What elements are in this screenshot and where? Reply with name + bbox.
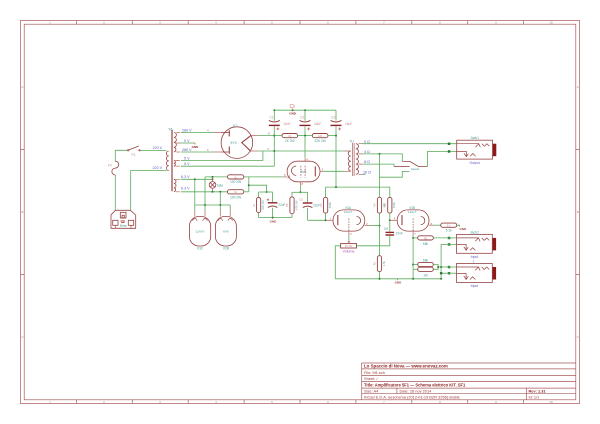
wire B+ node to OT primary	[274, 150, 344, 152]
wire volume right leg to C6	[357, 236, 390, 246]
V3A plate bar	[337, 215, 339, 225]
wire grid node riser down	[412, 238, 414, 279]
V3A grid pin bottom	[348, 231, 350, 235]
junction top rail C1	[273, 109, 275, 111]
connector Jack2 input 1	[457, 234, 493, 253]
wire 8 ohm tap run	[362, 164, 394, 166]
V3A plate pin	[326, 219, 333, 221]
svg-text:C2: C2	[300, 116, 304, 120]
svg-text:GND: GND	[459, 227, 467, 231]
junction lamp bottom	[212, 191, 214, 193]
svg-text:8 Ω: 8 Ω	[364, 160, 370, 164]
svg-text:22K 2W: 22K 2W	[314, 139, 325, 143]
wire 68k to Jack2 tip	[433, 237, 456, 239]
svg-text:Spia: Spia	[217, 183, 224, 187]
svg-text:470 1W: 470 1W	[261, 200, 265, 210]
TU secondary taps	[359, 144, 362, 175]
wire hum branch right	[249, 185, 267, 192]
svg-text:GND: GND	[395, 281, 403, 285]
svg-text:0 V: 0 V	[184, 139, 190, 143]
svg-text:220 V: 220 V	[153, 166, 163, 170]
junction rail end	[440, 278, 442, 280]
Jack3 pin squares	[448, 266, 451, 269]
svg-text:16uF: 16uF	[345, 122, 352, 126]
svg-text:R7: R7	[252, 203, 256, 207]
svg-text:Date: 28 nov 2014: Date: 28 nov 2014	[400, 389, 433, 394]
junction 6.3V a	[194, 178, 196, 180]
svg-text:470 2W: 470 2W	[294, 200, 298, 210]
wire fuse to switch	[115, 150, 127, 161]
svg-text:12AX7: 12AX7	[195, 230, 205, 234]
resistor 470 1W hum	[252, 192, 265, 218]
wire cathode network ground run	[259, 217, 292, 219]
svg-text:V1: V1	[233, 124, 237, 128]
svg-text:12ax7: 12ax7	[408, 210, 417, 214]
svg-text:FV: FV	[108, 164, 113, 168]
svg-text:GND: GND	[192, 145, 200, 149]
svg-text:8: 8	[302, 182, 304, 186]
wire row2 to hum node	[244, 191, 249, 193]
wire V2 cathode down	[299, 185, 301, 192]
wire cathode node branches	[292, 191, 308, 193]
junction C3 node	[335, 135, 337, 137]
svg-text:10: 10	[549, 400, 553, 404]
wire C1 node to R 1K	[274, 135, 282, 137]
resistor 68k input 1	[418, 236, 434, 240]
svg-text:280 V: 280 V	[182, 148, 192, 152]
lamp Spia	[209, 178, 216, 192]
junction V2 cathode	[299, 191, 301, 193]
junction lamp top	[212, 176, 214, 178]
V1 pin 2 stub	[250, 150, 258, 152]
junction ground stub	[272, 217, 274, 219]
V2 plate pin right	[320, 170, 324, 172]
wire 0V to ground	[180, 142, 195, 144]
wire heater row1 with V2 grid feed	[205, 176, 283, 178]
tube V3A 12ax7 envelope	[333, 210, 365, 231]
capacitor C1	[269, 110, 291, 166]
svg-text:6: 6	[207, 148, 209, 152]
junction V3B grid node	[412, 237, 414, 239]
junction merge node	[437, 266, 439, 268]
junction jack2 shunt joins tip2	[440, 266, 442, 268]
V2 cathode pin bottom	[299, 182, 301, 185]
svg-text:5.1: 5.1	[447, 224, 451, 228]
junction heater row d	[204, 204, 206, 206]
potentiometer Volume 1M	[341, 241, 357, 254]
tube V3C 12AX7 heater envelope	[189, 217, 210, 247]
wire V3B cathode to 5.1k	[434, 224, 441, 226]
svg-text:R5: R5	[373, 261, 377, 265]
svg-text:1M: 1M	[423, 273, 428, 277]
svg-text:Size: A4: Size: A4	[364, 389, 379, 394]
TU primary winding	[348, 151, 351, 171]
svg-text:8: 8	[268, 132, 270, 136]
svg-text:100k: 100k	[392, 202, 396, 209]
wire 5V bottom run	[181, 165, 274, 167]
junction hum network	[266, 191, 268, 193]
wire 5.1k to ground	[457, 225, 460, 226]
svg-text:Input: Input	[471, 284, 479, 288]
fuse F1	[112, 161, 119, 175]
svg-text:C1: C1	[269, 116, 273, 120]
V3B plate pin	[390, 219, 397, 221]
resistor 1K 2W	[282, 134, 298, 138]
svg-text:GND: GND	[270, 219, 278, 223]
junction heater row c	[219, 204, 221, 206]
V2 plate bar	[314, 166, 316, 176]
wire V3A grid to volume wiper	[348, 235, 350, 241]
wire preamp ground rail	[335, 278, 441, 280]
resistor 100 2W top	[228, 175, 244, 179]
svg-text:Rete: Rete	[120, 224, 127, 228]
capacitor C2	[300, 110, 322, 135]
wire coupling to V3A grid	[308, 219, 326, 221]
svg-text:7: 7	[414, 232, 416, 236]
V3B cathode arc	[421, 217, 425, 225]
wire 0 ohm to Jack1 tip	[362, 143, 457, 145]
Jack1 pin squares	[448, 143, 451, 146]
wire R22K to C3 node	[328, 135, 336, 137]
title block box	[362, 363, 576, 400]
wire ground top rail	[274, 109, 336, 111]
svg-text:V2B: V2B	[223, 247, 229, 251]
tube V1 5Y3 envelope	[221, 127, 253, 159]
power flag GND on ground rail	[292, 109, 294, 111]
svg-text:Output: Output	[470, 161, 480, 165]
wire heater feed a	[194, 179, 196, 205]
tube V2 6V6 envelope	[287, 161, 320, 182]
capacitor 22uF hum	[267, 192, 286, 218]
V2 grid pin left	[283, 176, 287, 178]
svg-text:68k: 68k	[423, 242, 429, 246]
TA 5V secondary winding	[174, 160, 175, 166]
tube V2B 6V6 heater envelope	[215, 217, 236, 247]
TA HT secondary winding	[174, 133, 176, 152]
junction top rail C2	[304, 109, 306, 111]
TU core	[353, 143, 355, 176]
svg-text:22K: 22K	[318, 134, 323, 138]
resistor 1M grid leak	[418, 267, 434, 271]
svg-text:Jack2: Jack2	[470, 230, 479, 234]
svg-text:A: A	[577, 85, 579, 89]
V1 filament chevron	[242, 135, 251, 150]
wire R1K to R22K	[298, 135, 313, 137]
junction C1 pin8 row	[273, 135, 275, 137]
wire heater feed c	[219, 192, 221, 205]
tube V3B 12ax7 envelope	[397, 210, 429, 231]
svg-text:C6: C6	[384, 227, 388, 231]
wire heater bottom row	[195, 204, 230, 206]
wire preamp B+ rail	[326, 186, 390, 188]
svg-text:22nF: 22nF	[396, 232, 403, 236]
svg-text:Input: Input	[471, 255, 479, 259]
V3B grid dashed	[412, 219, 414, 231]
transformer TA	[166, 130, 180, 192]
wire V3B grid down	[412, 235, 414, 238]
svg-text:4 Ω: 4 Ω	[364, 150, 370, 154]
wire to 68k bottom	[413, 264, 418, 266]
svg-text:Speak: Speak	[411, 167, 420, 171]
plug PE earth mark	[121, 221, 126, 222]
wire 4 ohm tap run	[362, 154, 402, 162]
svg-text:Sheet: /: Sheet: /	[364, 376, 378, 381]
wire switch to transformer primary top	[140, 150, 166, 152]
V2 cathode arc	[292, 166, 297, 175]
wire 1M left leg	[413, 268, 418, 270]
junction 68k2 left	[412, 264, 414, 266]
V3C filament arcs	[193, 219, 208, 221]
V2B filament arcs	[218, 219, 232, 221]
svg-text:B: B	[21, 210, 23, 214]
wire Jack3 shunt to riser	[441, 272, 456, 274]
svg-text:1.5k: 1.5k	[382, 260, 386, 266]
wire grid node to 68k top	[413, 237, 418, 239]
svg-text:6.3 V: 6.3 V	[181, 175, 190, 179]
svg-text:0 Ω: 0 Ω	[364, 140, 370, 144]
svg-text:GND: GND	[289, 111, 297, 115]
svg-text:1: 1	[330, 217, 332, 221]
svg-text:A: A	[21, 85, 23, 89]
svg-text:280 V: 280 V	[182, 128, 192, 132]
resistor 22k NFB	[373, 154, 386, 226]
resistor 5.1k	[441, 223, 457, 227]
junction NFB node	[379, 225, 381, 227]
svg-text:12ax7: 12ax7	[344, 210, 353, 214]
svg-text:Title: Amplificatore 5F1 — Sch: Title: Amplificatore 5F1 — Schema elettr…	[364, 383, 466, 388]
svg-text:R4: R4	[373, 203, 377, 207]
junction 4 ohm NFB	[379, 153, 381, 155]
svg-text:5 V: 5 V	[184, 156, 190, 160]
wire 280V bottom to V1 pin 6	[181, 151, 214, 153]
svg-text:V3C: V3C	[197, 247, 204, 251]
wire 16 ohm stub	[362, 173, 366, 175]
svg-text:2: 2	[268, 147, 270, 151]
svg-text:100k: 100k	[328, 202, 332, 209]
svg-text:File: 5f1.sch: File: 5f1.sch	[364, 370, 385, 375]
svg-text:22uF: 22uF	[278, 203, 285, 207]
connector J1 mains plug Rete	[111, 210, 136, 228]
junction jack3 shunt on riser	[440, 272, 442, 274]
connector Jack3 input 2	[457, 264, 493, 283]
V3A cathode pin right	[365, 225, 370, 227]
svg-text:1K 2W: 1K 2W	[285, 139, 295, 143]
svg-text:16uF: 16uF	[283, 122, 290, 126]
svg-text:R8: R8	[285, 203, 289, 207]
junction C2 node	[304, 135, 306, 137]
svg-text:Jack1: Jack1	[470, 136, 479, 140]
ground symbol below V2 cathode network	[272, 218, 274, 219]
svg-text:100 2W: 100 2W	[230, 180, 241, 184]
junction B+ node pin2	[273, 150, 275, 152]
svg-text:B: B	[577, 210, 579, 214]
svg-text:TU: TU	[349, 140, 354, 144]
transformer TU	[345, 143, 363, 176]
capacitor C3	[331, 110, 353, 187]
svg-text:6.3 V: 6.3 V	[181, 187, 190, 191]
wire neutral from plug to transformer primary bottom	[131, 171, 167, 211]
svg-text:KiCad E.D.A. eeschema (2012-0: KiCad E.D.A. eeschema (2012-01-19 BZR 32…	[364, 394, 460, 399]
svg-text:Rev: 1.31: Rev: 1.31	[529, 389, 547, 394]
wire 280V top to V1 pin 4	[181, 132, 214, 134]
svg-text:6V6: 6V6	[223, 230, 229, 234]
V2 screen dashed	[304, 166, 306, 178]
wire volume left leg to ground rail	[335, 246, 340, 279]
wire 6.3V top run	[181, 178, 213, 180]
svg-text:Lo Spaccio di Nova — www.enova: Lo Spaccio di Nova — www.enovaz.com	[364, 363, 448, 368]
wire hum network spans	[259, 191, 273, 193]
svg-text:3: 3	[366, 222, 368, 226]
svg-text:1K: 1K	[288, 134, 291, 138]
wire screen drop from C2 node	[304, 136, 306, 158]
wire heater feed d	[204, 177, 206, 205]
junction V3B plate node	[389, 219, 391, 221]
V1 pin 8 stub	[251, 135, 258, 137]
V3B plate bar	[401, 215, 403, 225]
resistor 100 2W bottom	[228, 190, 244, 194]
junction row2 c	[219, 191, 221, 193]
svg-text:16 Ω: 16 Ω	[363, 170, 371, 174]
resistor 22K 2W	[312, 134, 328, 138]
svg-text:R6: R6	[383, 203, 387, 207]
svg-text:1: 1	[473, 260, 475, 264]
svg-text:6: 6	[394, 217, 396, 221]
resistor 68k input 2	[418, 262, 434, 266]
svg-text:16uF: 16uF	[314, 122, 321, 126]
svg-text:5Y3: 5Y3	[230, 141, 236, 145]
resistor 100k V3A plate	[319, 187, 332, 220]
wire pin 2 to B+ node	[258, 150, 274, 152]
TA core	[171, 130, 172, 191]
TA 6.3V secondary winding	[174, 179, 176, 192]
svg-text:10: 10	[549, 21, 553, 25]
wire hum node riser	[248, 177, 250, 192]
wire speaker to Jack1 sleeve	[428, 151, 457, 166]
capacitor C6 coupling	[384, 220, 403, 235]
junction ground rail grid riser	[412, 278, 414, 280]
svg-text:C3: C3	[331, 116, 335, 120]
junction C3 to preamp rail	[335, 186, 337, 188]
svg-text:Id: 1/1: Id: 1/1	[529, 394, 540, 399]
wire pin 8 to C1 node	[258, 135, 274, 137]
ground symbol HT center tap	[194, 143, 196, 145]
wire phase from plug to fuse	[114, 175, 116, 210]
wire V3A cathode to NFB node	[370, 225, 380, 227]
TA primary winding	[166, 151, 168, 171]
wire heater pins drops	[195, 205, 230, 211]
wire 6.3V bottom run	[181, 191, 228, 193]
svg-text:R1: R1	[424, 236, 428, 240]
ground symbol preamp rail	[397, 279, 399, 280]
frame row ticks	[21, 149, 25, 274]
resistor 1.5k V3A cathode	[373, 226, 386, 279]
V3B cathode pin right	[429, 224, 434, 226]
switch P1	[128, 146, 141, 151]
resistor 100k V3B plate	[383, 187, 396, 220]
svg-text:2: 2	[350, 232, 352, 236]
svg-text:5: 5	[284, 173, 286, 177]
svg-text:68k: 68k	[423, 258, 429, 262]
svg-text:Volume: Volume	[343, 250, 355, 254]
svg-text:6V6: 6V6	[301, 170, 307, 174]
frame column ticks	[76, 21, 523, 25]
junction ground rail 1.5k	[379, 278, 381, 280]
wire Jack2 shunt run	[441, 244, 456, 279]
junction hum riser	[248, 184, 250, 186]
svg-text:5 V: 5 V	[184, 162, 190, 166]
connector speaker plug contacts	[394, 161, 428, 166]
wire V2 plate to OT primary bottom	[324, 170, 345, 172]
TU secondary winding	[356, 144, 359, 175]
V3A grid dashed	[348, 219, 350, 231]
Jack2 pin squares	[448, 237, 451, 240]
svg-text:100 2W: 100 2W	[230, 195, 241, 199]
V3A cathode arc	[357, 217, 361, 225]
junction lamp row a	[212, 178, 214, 180]
svg-text:TA: TA	[168, 128, 173, 132]
wire speaker return bracket	[380, 171, 410, 177]
svg-text:5.1k: 5.1k	[446, 228, 452, 232]
svg-text:R3: R3	[319, 203, 323, 207]
svg-text:P2 1M: P2 1M	[345, 244, 353, 248]
junction V3A plate node	[325, 219, 327, 221]
capacitor 22uF cathode bypass	[299, 192, 320, 220]
connector Jack1 output	[457, 140, 493, 159]
V3B grid pin bottom	[412, 231, 414, 235]
resistor 470 2W cathode	[285, 192, 298, 217]
wire 5V top run	[181, 151, 263, 160]
svg-text:220 V: 220 V	[153, 146, 163, 150]
V2 grid dashed	[300, 166, 302, 178]
wire 68k2 and 1M right ends merge	[433, 265, 456, 270]
svg-text:P1: P1	[132, 153, 136, 157]
svg-text:C5: C5	[299, 197, 303, 201]
V1 anode plates	[228, 130, 230, 154]
V2 screen pin top	[304, 158, 306, 162]
svg-text:4: 4	[207, 129, 209, 133]
